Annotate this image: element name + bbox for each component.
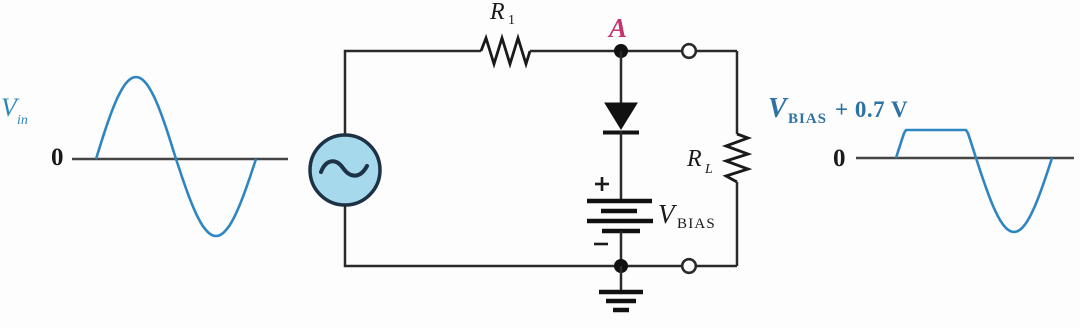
wire source bottom to bottom rail (345, 205, 737, 266)
terminal open circle top (682, 44, 696, 58)
diode D1 cathode bar (603, 131, 639, 135)
label Vin (1, 93, 28, 128)
diode D1 (anode triangle) (605, 103, 637, 129)
svg-text:V: V (658, 199, 678, 229)
ground symbol (599, 292, 643, 310)
battery VBIAS plates (587, 201, 653, 231)
resistor RL (726, 134, 748, 182)
svg-text:V: V (768, 93, 789, 124)
svg-text:L: L (704, 162, 713, 177)
bottom node dot (614, 259, 628, 273)
input sine waveform Vin (96, 77, 256, 236)
svg-text:BIAS: BIAS (788, 111, 827, 127)
battery VBIAS plus sign (595, 177, 609, 191)
wire node A to diode (620, 51, 623, 103)
wire right branch upper (736, 51, 739, 134)
svg-text:0: 0 (833, 145, 846, 172)
label VBIAS + 0.7 V (768, 93, 908, 127)
output zero baseline (856, 157, 1074, 159)
ac source sine symbol (321, 161, 367, 175)
svg-text:R: R (489, 0, 505, 25)
label RL (686, 146, 713, 177)
input zero baseline (72, 158, 288, 160)
wire diode to battery (620, 131, 623, 200)
label VBIAS (658, 199, 716, 232)
svg-text:1: 1 (508, 13, 515, 28)
ground stub wire (620, 266, 623, 291)
label R1 (489, 0, 515, 28)
ac source circle (310, 135, 380, 205)
resistor R1 (481, 38, 530, 64)
svg-text:in: in (17, 113, 28, 128)
svg-text:A: A (607, 13, 627, 43)
output clipped waveform (896, 130, 1052, 232)
svg-text:0: 0 (51, 144, 64, 171)
wire top rail R1 to corner (530, 50, 737, 53)
wire right branch lower (736, 182, 739, 266)
battery VBIAS minus sign (594, 243, 608, 246)
svg-text:BIAS: BIAS (677, 216, 716, 232)
svg-text:+ 0.7 V: + 0.7 V (835, 97, 908, 122)
node A dot (614, 44, 628, 58)
terminal open circle bottom (682, 259, 696, 273)
svg-text:R: R (686, 146, 702, 172)
wire top-left vertical (source to top rail) (345, 51, 481, 135)
wire battery to bottom rail (620, 231, 623, 266)
